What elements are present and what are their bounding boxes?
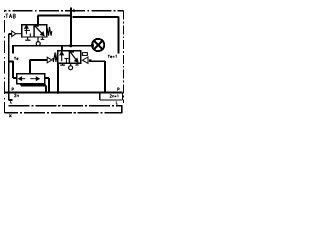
V2 bottom left wire to lower rail	[57, 63, 59, 92]
wire: mid rail left drop to shuttle left port	[8, 45, 17, 78]
V1 spring right	[47, 27, 52, 36]
shuttle right arrow	[30, 77, 39, 80]
V1 supply stub and source circle	[36, 37, 40, 46]
frame corner connector bottom-right	[121, 106, 123, 113]
V2 spring left	[53, 52, 58, 62]
label P-left	[12, 88, 14, 91]
indicator lamp	[92, 39, 104, 51]
V2 left cell blocked T	[64, 59, 68, 64]
V1 exhaust T below	[25, 37, 30, 40]
V1 left cell blocked T	[24, 30, 30, 37]
label TAB	[5, 14, 15, 18]
V2 left pilot wire from shuttle output	[30, 59, 47, 74]
junction dot at A-line and mid rail	[69, 44, 72, 47]
V2 left pilot triangle	[47, 57, 52, 63]
label x-bottom	[9, 114, 11, 117]
V1 small T below right	[41, 37, 45, 39]
V2 top port stub	[61, 46, 63, 51]
label 2n-left	[14, 94, 18, 97]
label Ye	[14, 57, 18, 60]
wire: mid rail (signal rail)	[12, 45, 92, 47]
V2 supply stub and source circle	[69, 63, 73, 69]
V2 small T below right	[75, 63, 78, 65]
label A	[73, 9, 75, 12]
label L-left	[11, 100, 12, 103]
V1 pilot wire from left	[9, 34, 13, 100]
V1 left cell flow arrow	[25, 25, 28, 34]
shuttle right port wire	[45, 78, 49, 92]
wire: valve1 top port up and right	[37, 15, 71, 25]
V2 left cell flow arrow	[60, 52, 63, 62]
shuttle bottom port wire	[21, 84, 46, 93]
valve V2 3/2 way, middle	[58, 51, 81, 64]
V1 pilot triangle left	[12, 31, 22, 37]
lower rail	[5, 91, 123, 93]
enclosure dash-dot frame	[4, 11, 124, 114]
V2 right pilot wire	[91, 61, 105, 92]
V2 exhaust T below	[60, 63, 65, 65]
V2 right side plate	[82, 53, 87, 56]
V2 right cell diagonal path	[70, 52, 78, 62]
valve V1 3/2 way, top left	[22, 25, 47, 37]
wire: A line vertical	[70, 8, 72, 46]
label 2n=1	[110, 95, 118, 98]
shuttle left arrow	[19, 77, 26, 80]
label box bottom right	[100, 92, 123, 100]
label L-right	[116, 101, 117, 104]
shuttle valve block	[17, 74, 45, 84]
V1 right cell diagonal path	[35, 26, 44, 36]
label P-right	[118, 88, 120, 91]
label Ye=1	[108, 55, 116, 58]
wire: top rail right segment to right side	[73, 16, 119, 53]
V2 right pilot triangle	[82, 57, 88, 63]
